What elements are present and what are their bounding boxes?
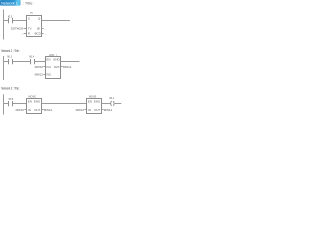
pin OUT with value MW14 [102,109,104,111]
pin BCD unconnected [42,33,44,35]
power rail network 1 [3,10,5,40]
pin R unconnected [24,33,27,35]
svg-text:MW14: MW14 [104,108,113,112]
pin IN1 with value MW10 [43,66,45,68]
svg-text:I0.5: I0.5 [9,97,14,101]
svg-text:...: ... [44,26,47,30]
wire rail to contact M1.3 [4,61,9,63]
svg-text:S5T#2S: S5T#2S [11,26,24,30]
pin IN2 with value MW12 [43,74,45,76]
power rail network 3 [3,94,5,114]
svg-text:MW12: MW12 [44,108,53,112]
svg-text:OUT: OUT [54,65,60,69]
svg-text:Network 2 : Title:: Network 2 : Title: [1,49,19,53]
svg-text:TV: TV [28,26,32,30]
svg-text:S: S [28,16,30,20]
MOVE box 2 [87,99,102,114]
svg-text:...: ... [21,32,24,36]
svg-text:ENO: ENO [54,58,61,62]
coil M1.1 [110,101,113,106]
svg-text:: Title:: : Title: [23,1,34,5]
wire contact M1.3 to contact M1.4 [13,61,31,63]
contact M1.3 [8,59,10,64]
wire rail to contact I0.1 [4,20,9,22]
timer box S_ODT [27,16,42,37]
wire MOVE2 ENO to coil [102,103,111,105]
svg-text:R: R [28,32,30,36]
pin OUT with value MW14 [61,66,63,68]
svg-text:MW14: MW14 [63,65,72,69]
wire MOVE1 ENO to MOVE2 EN [42,103,87,105]
svg-text:M1.3: M1.3 [7,54,12,58]
svg-text:EN: EN [28,100,32,104]
contact I0.5 [8,101,10,106]
wire ENO output [61,61,80,63]
svg-text:EN: EN [46,58,50,62]
wire contact to timer box [13,20,27,22]
svg-text:Network 3 : Title:: Network 3 : Title: [1,87,19,91]
svg-text:ENO: ENO [34,100,41,104]
svg-text:I0.1: I0.1 [8,15,13,19]
svg-text:OUT: OUT [34,108,40,112]
wire rail to contact I0.5 [4,103,9,105]
contact I0.1 [8,18,10,23]
svg-text:IN2: IN2 [46,73,51,77]
svg-text:T5: T5 [30,11,33,15]
svg-text:Network 1: Network 1 [1,1,18,5]
MOVE box 1 [27,99,42,114]
wire coil to end [115,103,122,105]
svg-text:...: ... [44,32,47,36]
wire Q output [42,20,70,22]
pin TV with value S5T#2S [24,28,27,30]
svg-text:OUT: OUT [94,108,100,112]
svg-text:IN1: IN1 [46,65,51,69]
power rail network 2 [3,56,5,80]
svg-text:MW12: MW12 [35,73,44,77]
svg-text:MW12: MW12 [76,108,85,112]
network 1 header bar [0,0,21,6]
contact M1.4 [30,59,32,64]
svg-text:BI: BI [37,26,40,30]
pin OUT with value MW12 [42,109,44,111]
pin BI unconnected [42,28,44,30]
svg-text:ENO: ENO [94,100,101,104]
svg-text:MW10: MW10 [16,108,25,112]
pin IN with value MW10 [24,109,26,111]
svg-text:MW10: MW10 [35,65,44,69]
wire contact to MOVE box 1 [13,103,27,105]
ADD_I box [46,57,61,79]
svg-text:EN: EN [88,100,92,104]
wire contact M1.4 to ADD_I box [35,61,46,63]
svg-text:IN: IN [88,108,91,112]
svg-text:BCD: BCD [35,32,41,36]
svg-text:M1.4: M1.4 [29,54,34,58]
pin IN with value MW12 [84,109,86,111]
svg-text:IN: IN [28,108,31,112]
svg-text:M1.1: M1.1 [110,96,115,100]
